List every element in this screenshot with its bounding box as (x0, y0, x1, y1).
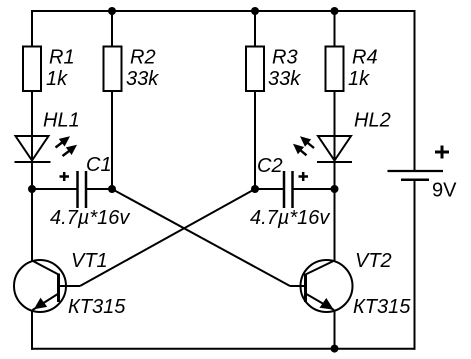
wire C1 right plate to node B (86, 188, 112, 190)
node E junction (VT2 emitter / bottom rail) (331, 345, 339, 353)
LED HL1 emission arrow 1 (56, 136, 71, 147)
svg-text:R2: R2 (130, 47, 156, 69)
svg-text:1k: 1k (348, 68, 370, 90)
svg-text:R3: R3 (272, 47, 298, 69)
svg-text:VT2: VT2 (355, 250, 392, 272)
wire node A to C1 left plate (32, 188, 77, 190)
wire R2 to node B (111, 91, 113, 189)
wire top rail (31, 10, 416, 12)
transistor VT1 collector lead (32, 261, 59, 275)
capacitor C1 right plate (85, 171, 88, 208)
resistor R1 (23, 47, 41, 92)
LED HL2 cathode bar (317, 161, 352, 163)
LED HL1 cathode bar (15, 161, 51, 163)
svg-text:1k: 1k (46, 68, 68, 90)
wire bottom rail (31, 348, 416, 350)
wire node C to C2 left plate (255, 188, 284, 190)
transistor VT1 emitter lead (33, 294, 59, 311)
transistor VT2 emitter lead (306, 294, 335, 311)
wire left column top stub (31, 10, 33, 47)
node top junction R3 (251, 7, 259, 15)
battery GB1 positive plate (long) (388, 170, 444, 172)
node D junction (HL2 / C2 / VT2 collector) (331, 185, 339, 193)
transistor VT2 body circle (301, 260, 353, 312)
wire C2 right plate to node D (293, 188, 335, 190)
wire R3 to node C (254, 91, 256, 189)
wire node A to VT1 collector (31, 189, 33, 262)
battery GB1 negative plate (short) (401, 179, 429, 182)
capacitor C1 left plate (76, 171, 79, 208)
svg-text:4.7µ*16v: 4.7µ*16v (50, 207, 130, 229)
resistor R3 (246, 47, 264, 92)
wire R4 to HL2 and through to node D (334, 91, 336, 189)
svg-text:КТ315: КТ315 (68, 296, 126, 318)
node B junction (R2 / C1 / VT2 base) (108, 185, 116, 193)
wire R2 top stub (111, 11, 113, 47)
svg-text:9V: 9V (432, 180, 457, 202)
svg-text:R4: R4 (352, 47, 378, 69)
wire R1 to HL1 and through to node A (31, 91, 33, 189)
LED HL1 triangle (16, 136, 49, 161)
transistor VT1 body circle (14, 260, 66, 312)
svg-text:4.7µ*16v: 4.7µ*16v (250, 207, 330, 229)
transistor VT1 emitter arrow (34, 298, 47, 310)
svg-text:C2: C2 (257, 155, 283, 177)
wire VT1 emitter to bottom rail (31, 310, 33, 350)
svg-text:33k: 33k (268, 68, 301, 90)
node top junction R2 (108, 7, 116, 15)
node top junction R4 (331, 7, 339, 15)
capacitor C2 right plate (291, 171, 294, 208)
C2 polarity plus sign (299, 172, 309, 181)
capacitor C2 left plate (283, 171, 286, 208)
wire cross-coupling node B to VT2 base (diagonal) (112, 189, 290, 286)
svg-text:HL2: HL2 (354, 110, 391, 132)
wire VT2 emitter to bottom rail (334, 310, 336, 349)
C1 polarity plus sign (60, 172, 70, 181)
transistor VT1 base bar (57, 274, 60, 303)
node C junction (R3 / C2 / VT1 base) (251, 185, 259, 193)
battery plus sign (435, 146, 449, 159)
wire R3 top stub (254, 11, 256, 47)
svg-text:КТ315: КТ315 (353, 296, 411, 318)
LED HL2 emission arrow 2 (293, 144, 307, 156)
svg-text:R1: R1 (49, 47, 75, 69)
wire right rail upper (414, 10, 416, 171)
wire right rail lower (414, 180, 416, 350)
svg-text:C1: C1 (86, 154, 112, 176)
node A junction (HL1 / C1 / VT1 collector) (28, 185, 36, 193)
wire node D to VT2 collector (334, 189, 336, 262)
LED HL2 triangle (318, 136, 351, 161)
wire VT2 base horizontal (290, 285, 306, 287)
transistor VT2 base bar (304, 274, 307, 303)
svg-text:33k: 33k (126, 68, 159, 90)
wire R4 top stub (334, 11, 336, 47)
wire VT1 base horizontal (59, 285, 80, 287)
LED HL1 emission arrow 2 (63, 145, 78, 156)
wire cross-coupling node C to VT1 base (diagonal) (80, 189, 255, 286)
transistor VT2 emitter arrow (320, 298, 334, 310)
resistor R2 (104, 47, 122, 92)
resistor R4 (326, 47, 344, 92)
LED HL2 emission arrow 1 (300, 136, 314, 148)
svg-text:HL1: HL1 (43, 110, 80, 132)
transistor VT2 collector lead (306, 261, 335, 275)
svg-text:VT1: VT1 (71, 250, 108, 272)
